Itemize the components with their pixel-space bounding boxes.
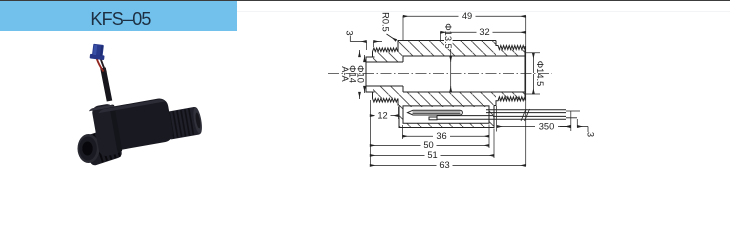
top-left 3: outside arrows: [350, 36, 357, 42]
svg-text:36: 36: [436, 131, 446, 141]
dimension lines with arrows: [350, 16, 588, 165]
Φ14.5 vertical with outward arrows: [532, 53, 534, 73]
centerline: [328, 73, 552, 75]
svg-text:49: 49: [462, 11, 472, 21]
R0.5 leader: [387, 34, 397, 41]
main tube outline: [398, 41, 496, 106]
svg-text:350: 350: [539, 121, 555, 131]
Φ14 arrows: [359, 50, 361, 57]
svg-text:R0.5: R0.5: [381, 12, 391, 32]
Φ10 arrows: [364, 55, 366, 62]
right thread top: [496, 41, 524, 50]
wires red/black: [97, 58, 104, 72]
3 right: outside arrows: [560, 126, 571, 128]
svg-text:12: 12: [377, 110, 387, 120]
svg-text:50: 50: [423, 140, 433, 150]
left stub: [366, 57, 375, 92]
dim 51 line: [370, 154, 494, 156]
svg-text:3: 3: [586, 132, 596, 137]
right thread: [164, 107, 201, 140]
svg-text:3: 3: [345, 30, 355, 35]
left collar: [91, 103, 122, 157]
dim 12 line: [370, 115, 399, 117]
housing (bottom box): [399, 106, 494, 128]
Φ13.5: [450, 56, 452, 62]
dim 49 line: [403, 15, 526, 17]
cable: [103, 68, 110, 101]
break marks: [521, 109, 530, 121]
body outline: [366, 41, 580, 128]
left nipple (threaded, lower-left): [82, 127, 123, 167]
dim 50 line: [370, 144, 489, 146]
slot: [403, 106, 489, 123]
svg-text:Φ13.5: Φ13.5: [443, 23, 453, 49]
blue connector: [90, 43, 106, 60]
terminal bar: [437, 116, 493, 120]
dim 36 line: [403, 135, 490, 137]
right thread bottom: [496, 97, 524, 106]
dim 32 line: [441, 31, 526, 33]
svg-text:51: 51: [427, 150, 437, 160]
main body: [88, 88, 204, 157]
white gaps behind dim texts: [375, 13, 559, 170]
dim 63 line: [370, 164, 526, 166]
wires: [486, 110, 566, 113]
hatched regions: [373, 41, 525, 128]
right face: [524, 46, 526, 101]
reed capsule 1: [408, 110, 463, 115]
svg-text:Φ10: Φ10: [355, 65, 365, 83]
bore lines Φ10: [366, 62, 403, 86]
extension lines: [367, 16, 578, 166]
top sheen: [98, 98, 165, 113]
left thread bottom zigzag: [373, 99, 398, 103]
svg-text:Φ14.5: Φ14.5: [535, 61, 545, 87]
svg-text:63: 63: [439, 160, 449, 170]
dimension text: [340, 11, 596, 170]
left thread top zigzag: [373, 48, 398, 52]
svg-text:32: 32: [479, 27, 489, 37]
main cylinder: [99, 97, 175, 152]
dim 350 line: [497, 126, 571, 128]
